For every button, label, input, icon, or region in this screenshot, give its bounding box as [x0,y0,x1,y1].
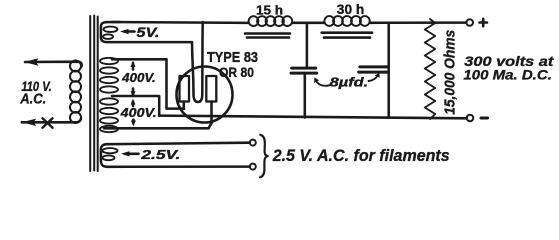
wire: top rail B+ [112,21,466,24]
svg-text:15,000 Ohms: 15,000 Ohms [442,30,459,115]
transformer T1 core (laminated) [90,16,98,172]
choke L1 core bars [245,34,290,38]
terminal: filament top [250,140,256,146]
wire: HV bottom lead to right plate [104,121,213,128]
tube plate (right anode) [206,76,216,102]
svg-text:15 h: 15 h [256,2,283,17]
filter choke L2 30h [324,16,369,26]
arrow: 2.5V label pointer [121,151,139,156]
brace for filament terminals [260,135,268,178]
svg-text:300 volts at: 300 volts at [464,54,554,69]
minus sign [481,117,488,120]
filter choke L1 15h [249,16,293,26]
svg-text:100 Ma. D.C.: 100 Ma. D.C. [463,68,551,83]
terminal: filament bottom [250,164,256,170]
bleeder resistor R1 15000 ohms [425,19,435,119]
svg-text:400V.: 400V. [121,70,156,85]
svg-text:400V.: 400V. [120,105,157,120]
wire: HV top lead to left plate [112,59,184,108]
capacitor C2 8ufd [359,23,389,118]
svg-text:2.5V.: 2.5V. [140,147,180,162]
choke L2 core bars [322,33,372,38]
plus sign [480,19,488,26]
arrow: 8ufd right pointer [369,73,380,81]
transformer 5V filament winding [101,22,192,42]
wire: right plate lead [210,102,213,122]
label: 300 volts at 100 Ma. D.C. [463,54,553,83]
transformer HV secondary winding (400-0-400) [100,58,118,132]
arrow: 400V section 1 span up [131,61,136,98]
wire: HV center tap lead [112,96,159,116]
svg-text:30 h: 30 h [337,2,365,17]
terminal: B+ output [466,19,473,26]
wire: 110V AC top lead with arrow [24,58,82,66]
svg-text:2.5 V. A.C. for filaments: 2.5 V. A.C. for filaments [272,146,450,165]
label: 110 V. A.C. [19,79,51,108]
transformer 2.5V filament winding [101,143,250,167]
transformer T1 primary winding (110V) [70,61,81,124]
capacitor C1 8ufd [291,23,317,118]
svg-text:8µfd.: 8µfd. [330,75,369,90]
svg-text:OR 80: OR 80 [219,64,254,80]
wire: left plate lead [183,102,186,109]
arrow: 8ufd left pointer [314,77,330,86]
rectifier tube V1 envelope [177,67,233,123]
arrow: 5V label pointer [120,29,135,34]
wire: 110V AC bottom lead with arrow and X (switch) [22,118,81,127]
svg-text:A.C.: A.C. [19,91,46,108]
tube filament (with leads from 5V winding) [192,22,203,102]
wire: bottom rail B- [159,116,466,119]
arrow: 400V section 2 span [131,99,136,127]
tube plate (left anode) [180,76,190,102]
terminal: B- output [467,115,474,122]
svg-text:5V.: 5V. [136,25,159,40]
